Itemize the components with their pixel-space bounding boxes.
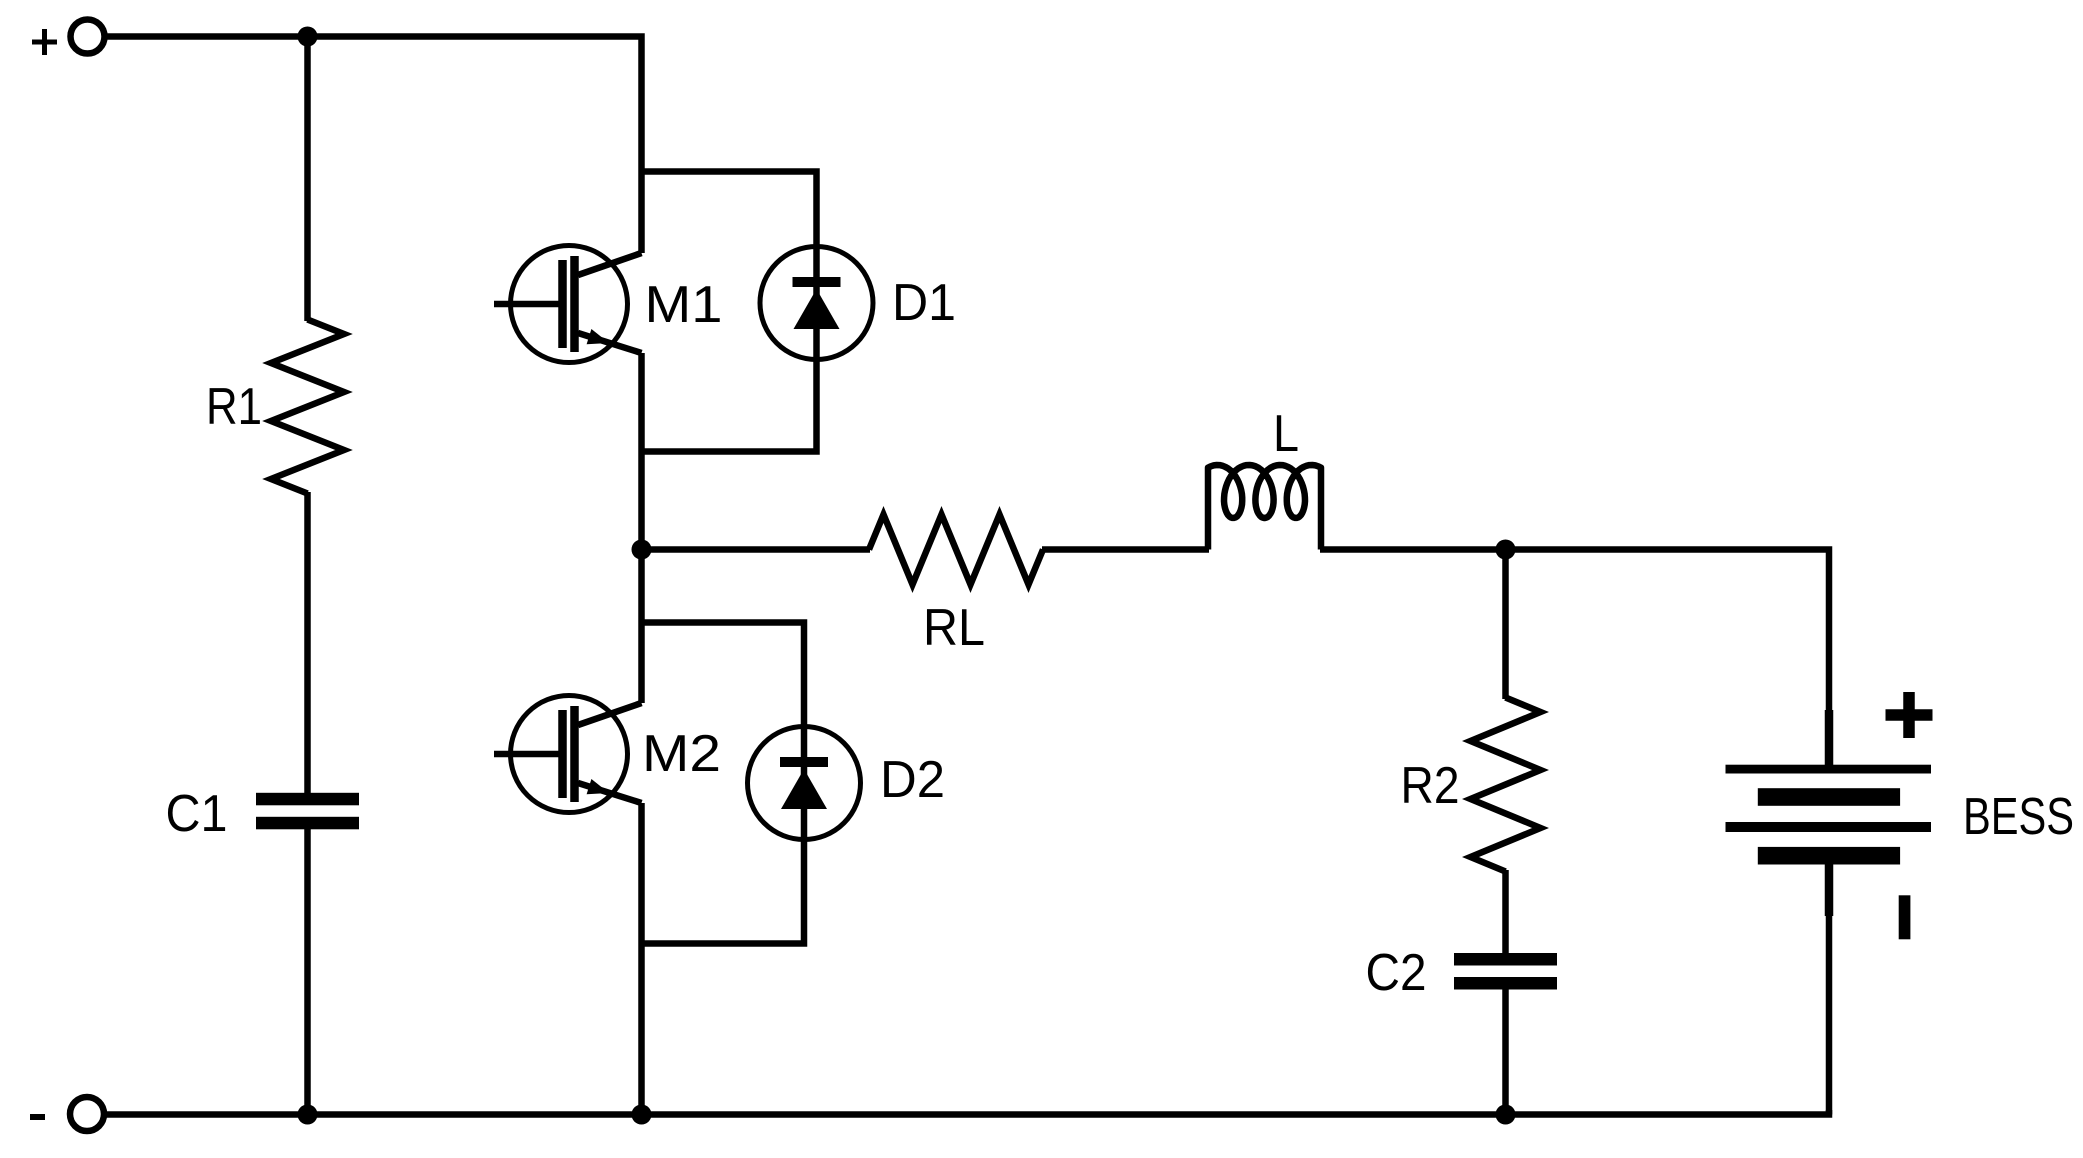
diode D1 cathode bar: [793, 277, 841, 287]
transistor M1 gate lead: [494, 301, 559, 308]
resistor RL: [869, 515, 1043, 585]
node mid junction (half-bridge output): [632, 540, 652, 560]
transistor M1 (IGBT) body circle: [511, 246, 628, 363]
transistor M1 gate bar: [558, 260, 567, 348]
capacitor C1 top plate: [256, 793, 359, 806]
svg-text:D1: D1: [892, 274, 956, 332]
transistor M1 emitter arrow: [587, 329, 609, 344]
wire R2 to C2: [1502, 870, 1509, 954]
capacitor C2 bottom plate: [1454, 977, 1557, 990]
svg-text:L: L: [1273, 405, 1299, 463]
resistor R2: [1471, 698, 1541, 872]
label I (battery negative mark): [1899, 895, 1911, 939]
inductor L: [1208, 465, 1321, 550]
wire R2 branch upper: [1502, 550, 1509, 700]
battery negative lead: [1825, 865, 1834, 917]
svg-text:R1: R1: [206, 378, 262, 436]
transistor M1 emitter lead: [578, 333, 642, 353]
transistor M2 emitter arrow: [587, 779, 609, 794]
label + (positive terminal): [32, 29, 57, 55]
svg-text:M2: M2: [642, 725, 721, 783]
node junction bottom rail / C2: [1496, 1105, 1516, 1125]
wire RL to L: [1042, 546, 1209, 553]
svg-text:D2: D2: [880, 751, 945, 809]
transistor M2 emitter lead: [578, 783, 642, 803]
transistor M2 channel bar: [570, 706, 579, 802]
svg-text:RL: RL: [923, 599, 985, 657]
label - (negative terminal): [30, 1114, 45, 1120]
label + (battery positive): [1886, 692, 1933, 738]
capacitor C1 bottom plate: [256, 817, 359, 830]
svg-text:M1: M1: [645, 276, 723, 334]
wire main vertical mid (to M2 collector): [638, 550, 645, 704]
svg-text:C2: C2: [1366, 944, 1427, 1002]
node junction top rail / R1: [298, 27, 318, 47]
wire M2 emitter to bottom rail: [638, 803, 645, 1115]
transistor M2 (IGBT) body circle: [511, 696, 628, 813]
transistor M1 collector lead: [578, 253, 642, 275]
transistor M1 channel bar: [570, 256, 579, 352]
wire battery to bottom rail corner: [1826, 914, 1833, 1115]
diode D2 body circle: [748, 727, 861, 840]
battery plate 3 (long positive): [1726, 822, 1932, 832]
diode D1 body circle: [760, 247, 873, 360]
wire M1 emitter to mid node: [638, 353, 645, 550]
transistor M2 gate lead: [494, 751, 559, 758]
battery plate 1 (long positive): [1726, 765, 1932, 774]
battery BESS positive lead: [1825, 710, 1834, 766]
resistor R1: [271, 320, 344, 494]
battery plate 4 (short negative): [1758, 847, 1900, 865]
wire L to R2 node: [1320, 546, 1506, 553]
diode D1 anode triangle: [794, 289, 840, 329]
wire D1 branch (top stub, vertical, bottom stub): [642, 172, 817, 452]
svg-text:BESS: BESS: [1963, 788, 2074, 846]
diode D2 anode triangle: [781, 769, 827, 809]
battery plate 2 (short negative): [1758, 788, 1900, 806]
svg-text:R2: R2: [1401, 757, 1460, 815]
wire bottom rail: [104, 1110, 1829, 1115]
node junction bottom rail / C1: [298, 1105, 318, 1125]
wire C1 to bottom rail: [304, 828, 311, 1115]
wire top rail into main vertical: [105, 37, 642, 254]
diode D2 cathode bar: [780, 757, 828, 767]
wire C2 to bottom rail: [1502, 988, 1509, 1115]
wire mid rail to battery: [1506, 550, 1830, 713]
svg-text:C1: C1: [166, 785, 228, 843]
capacitor C2 top plate: [1454, 953, 1557, 966]
wire mid rail to RL: [642, 546, 871, 553]
wire R1 branch upper: [304, 37, 311, 322]
wire D2 branch (top stub, vertical, bottom stub): [642, 623, 805, 944]
node junction mid rail / R2: [1496, 540, 1516, 560]
terminal negative input circle: [70, 1097, 104, 1131]
wire R1 to C1: [304, 492, 311, 794]
transistor M2 gate bar: [558, 710, 567, 798]
node junction bottom rail / M2 leg: [632, 1105, 652, 1125]
transistor M2 collector lead: [578, 703, 642, 725]
terminal positive input circle: [71, 20, 105, 54]
